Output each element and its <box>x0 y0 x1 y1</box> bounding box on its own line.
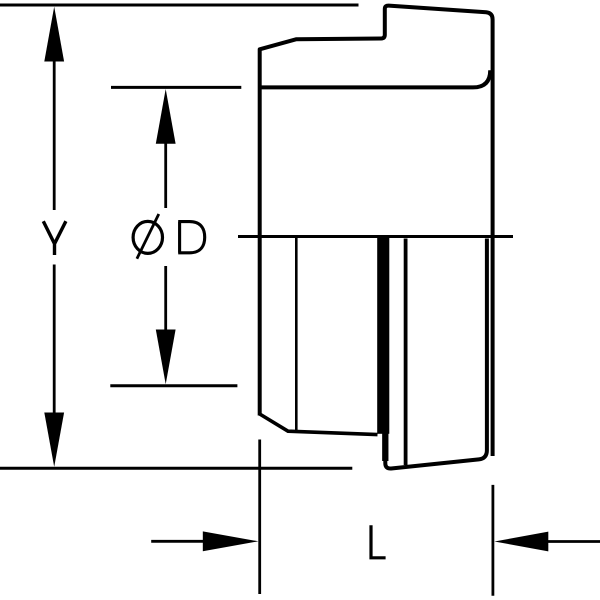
L left leader line <box>151 540 225 543</box>
OD dimension top extension line <box>111 86 241 89</box>
OD dimension line (broken for label) <box>164 142 167 331</box>
label D <box>178 222 205 253</box>
part body outline (nut / fitting silhouette) <box>260 6 493 456</box>
L right leader line <box>545 540 600 543</box>
Y dimension line (broken for label) <box>53 59 56 414</box>
label L <box>369 525 385 558</box>
L dimension left extension line <box>258 440 261 595</box>
L left arrowhead <box>203 531 259 551</box>
Y bottom arrowhead <box>44 413 64 467</box>
label diameter symbol <box>133 221 162 253</box>
lower-left section: chamfer and bottom edge <box>260 414 378 435</box>
L dimension right extension line <box>491 485 494 596</box>
mid horizontal edge line <box>238 235 513 238</box>
OD dimension bottom extension line <box>110 384 237 387</box>
Y top arrowhead <box>44 7 64 62</box>
OD top arrowhead <box>156 89 176 144</box>
Y dimension bottom extension line <box>0 467 352 470</box>
lower-left section: inner chamfer vertical line <box>295 238 298 432</box>
label Y <box>43 221 66 255</box>
shoulder edge line with fillet to right edge <box>258 70 490 87</box>
tail tube: inner wall line <box>404 239 408 466</box>
tail tube: thick left edge, bottom edge, inner right edge <box>385 238 487 469</box>
Y dimension top extension line <box>0 4 359 7</box>
lower-left section: right edge line merged with tube edge (solid bar) <box>377 237 389 434</box>
L right arrowhead <box>494 532 548 552</box>
OD bottom arrowhead <box>156 330 176 385</box>
